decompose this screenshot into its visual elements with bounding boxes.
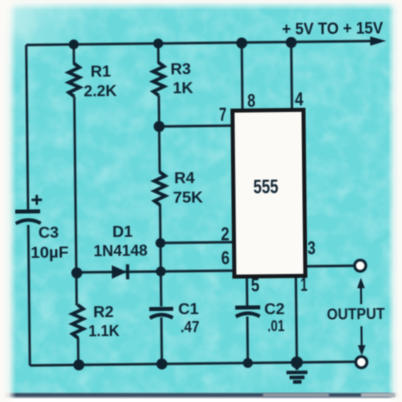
svg-text:555: 555 bbox=[253, 176, 278, 198]
svg-text:6: 6 bbox=[221, 248, 230, 268]
svg-text:1.1K: 1.1K bbox=[88, 323, 120, 340]
svg-text:D1: D1 bbox=[112, 224, 133, 241]
svg-text:OUTPUT: OUTPUT bbox=[327, 306, 385, 324]
svg-text:5: 5 bbox=[251, 275, 260, 295]
svg-text:R3: R3 bbox=[170, 61, 191, 78]
svg-text:.01: .01 bbox=[267, 318, 284, 335]
svg-text:C3: C3 bbox=[38, 225, 59, 242]
svg-text:C2: C2 bbox=[264, 301, 285, 318]
svg-text:10µF: 10µF bbox=[30, 245, 68, 262]
svg-text:R1: R1 bbox=[90, 64, 111, 81]
svg-text:R4: R4 bbox=[174, 170, 195, 187]
svg-text:C1: C1 bbox=[178, 301, 199, 318]
svg-text:.47: .47 bbox=[180, 319, 199, 336]
svg-text:2.2K: 2.2K bbox=[84, 83, 118, 100]
svg-text:3: 3 bbox=[307, 238, 315, 258]
svg-text:7: 7 bbox=[219, 105, 227, 125]
svg-text:8: 8 bbox=[247, 91, 255, 111]
svg-text:1K: 1K bbox=[173, 80, 194, 97]
svg-text:+ 5V TO + 15V: + 5V TO + 15V bbox=[282, 18, 384, 38]
svg-text:R2: R2 bbox=[93, 304, 114, 321]
svg-text:2: 2 bbox=[221, 224, 230, 244]
svg-text:1N4148: 1N4148 bbox=[93, 243, 147, 261]
svg-text:4: 4 bbox=[295, 89, 304, 109]
svg-text:1: 1 bbox=[300, 275, 307, 295]
svg-text:75K: 75K bbox=[173, 189, 204, 206]
